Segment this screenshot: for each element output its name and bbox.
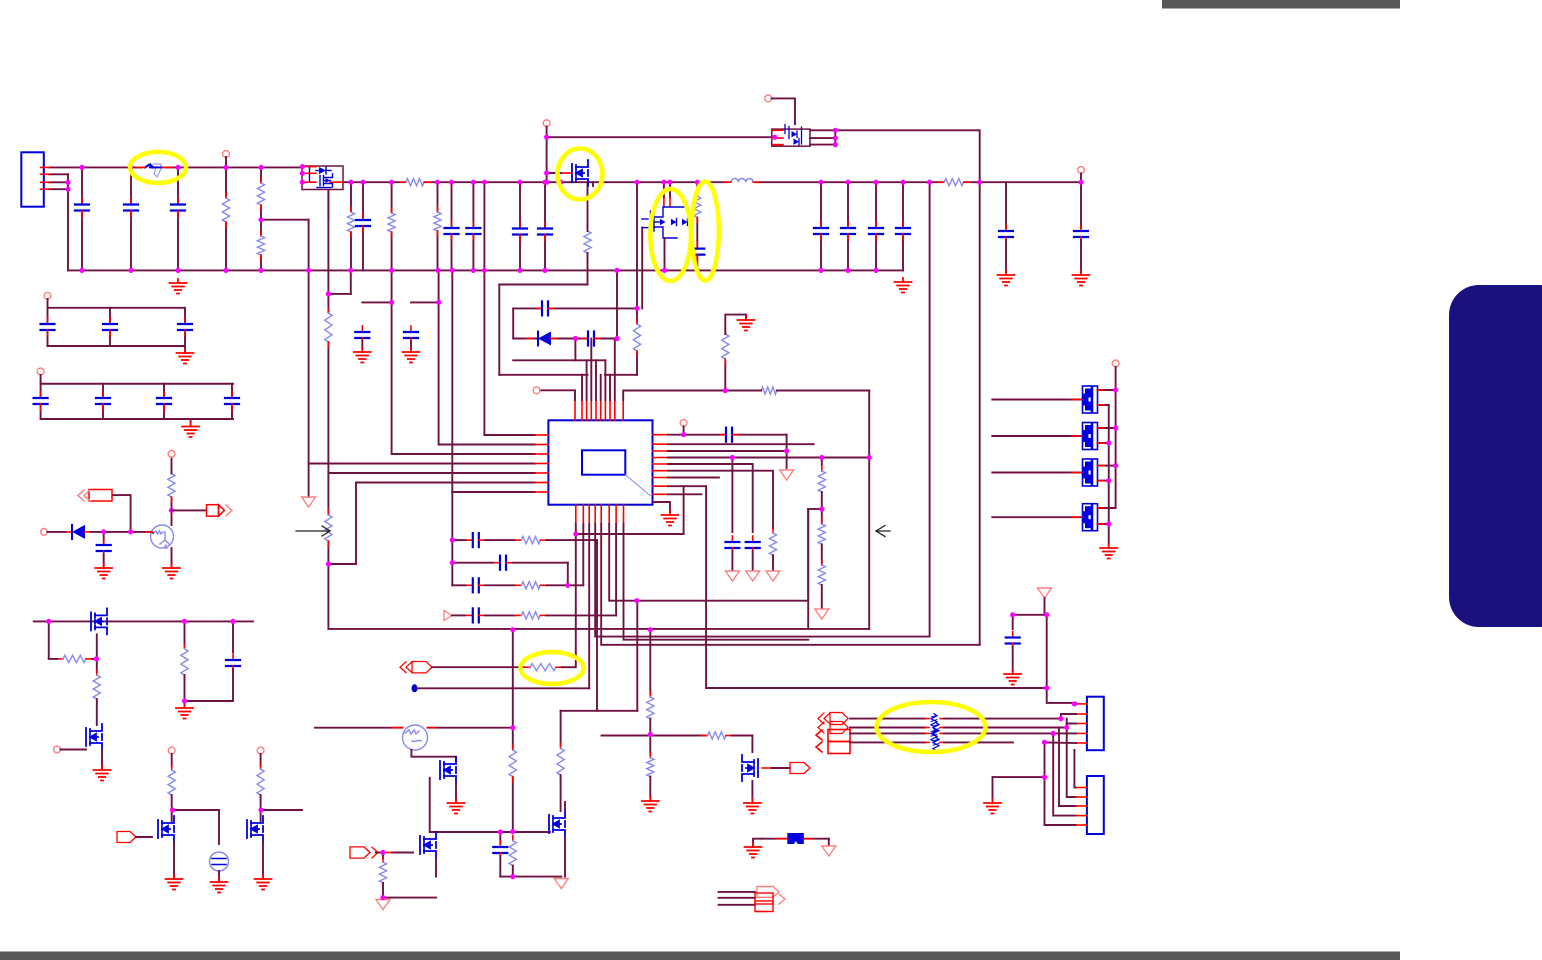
resistor R5	[388, 208, 395, 237]
highlight ellipse H1	[130, 152, 186, 183]
wire	[746, 390, 761, 392]
wire snubber net4	[499, 374, 587, 376]
port arrow P2	[400, 662, 432, 673]
node junction	[833, 142, 838, 147]
port arrow P8	[818, 722, 848, 734]
capacitor C19	[690, 243, 704, 261]
ground	[211, 878, 228, 893]
resistor R23	[515, 582, 546, 589]
wire	[547, 172, 561, 174]
node junction	[510, 874, 515, 879]
wire net to U1 pin L7	[451, 270, 453, 585]
capacitor C31	[178, 318, 192, 336]
ground	[182, 423, 199, 438]
capacitor C30	[103, 318, 117, 336]
node junction	[128, 165, 133, 170]
node junction	[46, 619, 51, 624]
ground	[177, 349, 194, 364]
wire	[184, 346, 186, 351]
node junction	[380, 850, 385, 855]
wire	[231, 384, 233, 419]
wire	[411, 301, 439, 303]
wire	[101, 750, 103, 768]
annotation arrow A1	[296, 526, 330, 536]
node junction	[873, 180, 878, 185]
port (triangle)	[780, 470, 794, 480]
wire drop x650	[649, 629, 651, 694]
node junction	[436, 300, 441, 305]
node junction	[380, 895, 385, 900]
node junction	[845, 268, 850, 273]
wire pack bottom rail	[1108, 405, 1110, 544]
wire	[49, 173, 68, 175]
capacitor C15	[536, 301, 554, 315]
wire	[574, 339, 576, 361]
node junction	[927, 180, 932, 185]
wire net y688	[706, 687, 1047, 689]
node junction	[544, 170, 549, 175]
resistor R33	[93, 670, 100, 704]
ground	[166, 875, 183, 890]
wire	[902, 182, 904, 270]
transistor Q7 (pack)	[1083, 423, 1098, 450]
wire	[67, 174, 69, 270]
capacitor C3	[171, 199, 185, 217]
wire pack top rail	[1115, 367, 1117, 508]
wire	[49, 658, 57, 660]
wire	[435, 858, 437, 877]
node junction	[471, 180, 476, 185]
wire aux 1	[719, 891, 755, 893]
node junction	[300, 171, 305, 176]
node junction	[819, 455, 824, 460]
port arrow P4	[350, 847, 378, 858]
resistor R25	[647, 692, 654, 724]
node junction	[128, 268, 133, 273]
wire drive net 1	[992, 399, 1082, 401]
wire	[103, 554, 105, 566]
wire	[616, 270, 618, 338]
node junction	[389, 180, 394, 185]
port (triangle)	[815, 609, 829, 619]
wire	[499, 832, 501, 844]
transistor Q1 (pass FET with diode)	[302, 166, 343, 190]
terminal	[680, 420, 687, 427]
node junction	[818, 268, 823, 273]
resistor R1	[222, 193, 229, 227]
capacitor C16	[582, 332, 600, 346]
node junction	[510, 627, 515, 632]
wire	[362, 182, 364, 270]
wire	[731, 458, 733, 533]
wire	[1074, 732, 1077, 734]
wire	[260, 754, 262, 766]
wire	[350, 182, 352, 270]
node junction	[867, 455, 872, 460]
wire	[428, 727, 513, 729]
wire	[410, 341, 412, 349]
ground	[255, 875, 272, 890]
wire bus VIN	[49, 166, 302, 168]
wire	[564, 837, 566, 877]
capacitor C23	[467, 608, 485, 622]
terminal	[54, 746, 61, 753]
wire snubber net2	[513, 338, 617, 340]
wire	[500, 831, 550, 833]
node junction	[730, 455, 735, 460]
resistor R35	[168, 765, 175, 800]
terminal	[1078, 167, 1085, 174]
wire bundle 3b	[944, 732, 1075, 734]
wire	[499, 284, 587, 286]
terminal	[257, 747, 264, 754]
wire	[225, 157, 227, 270]
node junction	[614, 336, 619, 341]
wire right loop drop	[868, 391, 870, 629]
wire	[361, 341, 363, 349]
connector J4	[755, 887, 785, 912]
wire net R10	[653, 502, 671, 512]
port box P10	[816, 742, 850, 754]
resistor R15	[818, 519, 825, 549]
wire	[513, 562, 568, 564]
port (triangle) P6	[554, 879, 568, 889]
wire	[567, 563, 569, 586]
wire gate drop	[641, 228, 643, 309]
wire U1 B7 drop	[615, 524, 617, 615]
node junction	[1113, 463, 1118, 468]
wire bundle 2a	[850, 727, 925, 729]
node junction	[170, 807, 175, 812]
sidebar tab	[1449, 285, 1542, 627]
wire	[546, 127, 548, 183]
wire	[1098, 404, 1109, 406]
wire	[48, 621, 50, 659]
wire	[1098, 442, 1109, 444]
wire	[171, 497, 173, 525]
wire	[172, 809, 219, 811]
resistor R28	[379, 857, 386, 888]
wire	[1080, 182, 1082, 228]
node junction	[258, 165, 263, 170]
resistor R2	[257, 178, 264, 210]
wire	[261, 219, 309, 221]
wire	[820, 182, 822, 270]
wire net U1 T1	[540, 390, 575, 400]
wire	[546, 614, 616, 616]
port box P13	[78, 490, 112, 502]
resistor R7	[325, 308, 332, 347]
capacitor C22	[746, 536, 760, 554]
wire riser U1 T4	[590, 339, 592, 401]
wire	[262, 842, 264, 877]
node junction	[389, 268, 394, 273]
component F1 (fuse block)	[787, 833, 804, 844]
wire	[1012, 615, 1014, 629]
node junction	[819, 506, 824, 511]
wire Q4 source	[664, 238, 666, 270]
node junction	[101, 529, 106, 534]
wire	[47, 308, 49, 346]
wire	[1074, 750, 1076, 788]
capacitor C21	[725, 536, 739, 554]
wire net R5	[668, 464, 753, 532]
port (triangle)	[302, 497, 316, 507]
port (triangle) P12	[822, 846, 836, 856]
wire	[418, 687, 590, 689]
node junction	[558, 180, 563, 185]
wire	[587, 253, 589, 285]
wire	[383, 897, 436, 899]
resistor R26	[647, 753, 654, 782]
wire	[772, 555, 774, 570]
node junction	[182, 698, 187, 703]
wire	[171, 754, 173, 766]
highlight ellipse H3	[650, 189, 691, 281]
wire drop x808	[807, 509, 809, 629]
capacitor C4	[356, 214, 370, 232]
node junction	[1042, 775, 1047, 780]
ground	[1073, 271, 1090, 286]
node junction	[661, 180, 666, 185]
transistor Q8	[549, 811, 565, 837]
transistor Q8 (pack)	[1083, 459, 1098, 486]
node junction	[544, 180, 549, 185]
wire	[669, 182, 671, 198]
wire	[102, 384, 104, 419]
wire snubber net3	[513, 359, 605, 361]
ground	[1004, 670, 1021, 685]
transistor Q15	[86, 724, 102, 750]
transistor Q16	[158, 816, 174, 842]
wire	[1013, 614, 1047, 616]
wire	[753, 839, 762, 845]
port box P9	[816, 730, 850, 742]
node junction	[450, 538, 455, 543]
wire	[184, 308, 186, 346]
node junction	[845, 180, 850, 185]
wire	[1098, 427, 1116, 429]
wire	[430, 778, 501, 832]
wire	[451, 182, 453, 270]
node junction	[510, 725, 515, 730]
wire net R6	[668, 471, 773, 528]
wire	[772, 98, 795, 124]
node junction	[258, 268, 263, 273]
connector J1	[21, 152, 44, 206]
wire	[130, 167, 132, 270]
resistor R8	[325, 510, 332, 546]
node junction	[695, 268, 700, 273]
wire	[171, 457, 173, 473]
wire net B	[452, 539, 466, 541]
wire net R8	[668, 486, 706, 688]
node junction	[435, 268, 440, 273]
wire bundle 3a	[850, 732, 925, 734]
resistor R17	[722, 329, 729, 364]
port (triangle)	[766, 571, 780, 581]
wire	[777, 390, 869, 392]
wire	[218, 871, 220, 880]
node junction	[300, 180, 305, 185]
wire	[564, 802, 566, 811]
capacitor C8	[538, 223, 552, 241]
ground	[94, 766, 111, 781]
wire	[391, 182, 393, 270]
resistor R10	[584, 226, 591, 258]
capacitor C9	[814, 222, 828, 240]
wire	[485, 539, 515, 541]
wire U1 B8 net	[624, 524, 809, 640]
wire	[731, 551, 733, 570]
wire net y735	[602, 735, 707, 737]
terminal	[168, 747, 175, 754]
wire aux 2	[719, 897, 755, 899]
node junction	[450, 560, 455, 565]
capacitor C24	[467, 533, 485, 547]
node junction	[634, 180, 639, 185]
node junction	[648, 627, 653, 632]
wire drop x597	[596, 540, 598, 711]
wire	[1005, 182, 1007, 228]
wire bundle 1b	[944, 718, 1061, 720]
ground	[895, 278, 912, 293]
wire bundle 1a	[850, 718, 925, 720]
resistor R20	[515, 612, 546, 619]
ground	[403, 348, 420, 363]
wire	[40, 375, 42, 384]
wire bundle 2b	[944, 727, 1067, 729]
node junction	[1113, 387, 1118, 392]
node junction	[498, 829, 503, 834]
wire	[432, 666, 524, 668]
wire riser U1 T2	[581, 375, 583, 400]
resistor R12	[400, 179, 430, 186]
node junction	[175, 165, 180, 170]
ground	[354, 348, 371, 363]
wire	[1012, 647, 1014, 672]
wire	[724, 361, 726, 391]
wire	[472, 182, 474, 270]
capacitor C20	[720, 428, 738, 442]
wire	[47, 531, 66, 533]
wire	[218, 810, 220, 844]
node junction	[449, 180, 454, 185]
op-amp U1 (main controller IC)	[548, 420, 652, 504]
node junction	[258, 807, 263, 812]
capacitor C29	[41, 318, 55, 336]
node junction	[1078, 180, 1083, 185]
fuse F2 (highlighted)	[143, 164, 164, 177]
node junction	[1051, 731, 1056, 736]
node junction	[1042, 740, 1047, 745]
wire aux 3	[719, 904, 755, 906]
transistor Q4 (dual MOSFET highlighted)	[642, 207, 688, 238]
wire U1 B6 net	[609, 524, 808, 601]
node junction	[182, 619, 187, 624]
wire	[382, 883, 384, 898]
wire	[732, 735, 752, 737]
terminal	[1112, 360, 1119, 367]
wire	[173, 842, 175, 877]
node junction	[482, 180, 487, 185]
node junction	[306, 268, 311, 273]
node junction	[723, 388, 728, 393]
wire U1 B4 net	[595, 524, 929, 637]
wire	[512, 866, 514, 877]
wire	[261, 809, 302, 811]
wire	[1005, 240, 1007, 272]
wire	[47, 299, 49, 308]
wire	[136, 836, 152, 838]
wire	[485, 584, 515, 586]
resistor R24	[702, 732, 733, 739]
wire	[1080, 173, 1082, 182]
wire	[762, 838, 787, 840]
wire	[498, 285, 500, 375]
wire	[1044, 598, 1046, 615]
wire	[544, 182, 546, 270]
highlight ellipse H2	[558, 149, 603, 200]
ground	[642, 797, 659, 812]
capacitor C7	[513, 223, 527, 241]
wire	[683, 426, 685, 434]
wire	[163, 384, 165, 419]
node junction	[723, 388, 728, 393]
wire	[49, 181, 68, 183]
wire	[810, 144, 835, 146]
wire	[587, 184, 589, 231]
capacitor C17	[999, 225, 1013, 243]
wire	[171, 795, 173, 821]
terminal	[223, 151, 230, 158]
wire	[171, 548, 173, 566]
wire snubber drop	[636, 182, 638, 375]
wire riser U1 T6	[600, 375, 602, 400]
wire	[993, 776, 1045, 778]
wire	[49, 188, 68, 190]
wire net R7	[668, 477, 719, 479]
node junction	[662, 268, 667, 273]
diode D1	[527, 332, 557, 346]
ground	[448, 799, 465, 814]
diode pack D2 (bundle protection)	[931, 714, 937, 727]
wire net to U1 pin L3	[392, 270, 535, 454]
ground	[662, 511, 679, 526]
transistor Q3 (dual FET pack)	[772, 125, 810, 147]
wire	[847, 182, 849, 270]
wire bank2 top	[41, 383, 233, 385]
wire	[382, 853, 384, 859]
ground	[998, 271, 1015, 286]
wire	[185, 700, 234, 702]
resistor R4	[347, 207, 354, 237]
node junction	[1058, 716, 1063, 721]
wire	[683, 486, 685, 534]
node junction	[389, 300, 394, 305]
wire	[1098, 480, 1109, 482]
wire	[437, 182, 439, 270]
resistor R13	[694, 191, 701, 222]
node junction	[348, 268, 353, 273]
capacitor C18	[1074, 225, 1088, 243]
wire	[356, 482, 535, 484]
resistor R32	[57, 655, 92, 662]
wire	[1061, 714, 1076, 719]
node junction	[873, 268, 878, 273]
node junction	[544, 135, 549, 140]
port (triangle)	[725, 571, 739, 581]
